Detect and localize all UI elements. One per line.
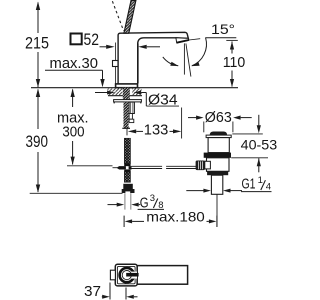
hose nut xyxy=(123,184,133,189)
top view side tab xyxy=(110,270,115,280)
spout aerator xyxy=(176,38,189,43)
tee fitting xyxy=(116,166,131,169)
dimension 110 xyxy=(226,39,238,41)
waste plug dome xyxy=(210,132,228,136)
dimension 390 line xyxy=(37,90,39,193)
emblem inner circle xyxy=(122,271,131,280)
svg-text:G1: G1 xyxy=(242,176,256,193)
countertop hatch right xyxy=(132,88,142,95)
handle lever (hatched) xyxy=(124,1,136,34)
15 degree arc left branch xyxy=(163,57,178,66)
waste washer band xyxy=(204,153,231,158)
angle tilted line xyxy=(186,43,191,76)
svg-text:110: 110 xyxy=(223,54,246,71)
waste upper cylinder xyxy=(208,138,229,153)
15 degree arc right branch xyxy=(192,38,207,66)
rod guide tube xyxy=(129,102,134,113)
left extension line of square52 xyxy=(115,43,117,84)
top view lever arm xyxy=(137,266,187,285)
waste body xyxy=(207,158,230,172)
base plate xyxy=(116,84,138,88)
angle reference vertical line xyxy=(183,43,185,74)
dimension 215 line xyxy=(37,3,39,88)
waste flange plate xyxy=(206,135,231,138)
emblem ring xyxy=(118,267,135,284)
countertop hatch left xyxy=(108,88,123,95)
flexible hose lower part xyxy=(124,170,130,172)
emblem bar gap xyxy=(132,272,138,279)
dimension square52 xyxy=(71,34,82,45)
lift rod xyxy=(131,165,162,167)
countertop top line xyxy=(31,87,238,89)
dimension Ø63 xyxy=(203,122,205,133)
rod knob xyxy=(196,161,205,171)
small tab on body left side xyxy=(113,61,119,67)
svg-text:300: 300 xyxy=(62,124,84,140)
knob stem xyxy=(205,161,211,169)
rod-level extension line xyxy=(67,165,113,167)
svg-text:1: 1 xyxy=(258,175,263,186)
svg-text:40-53: 40-53 xyxy=(241,137,278,152)
dimension 133 xyxy=(126,129,128,136)
max.180 dimension xyxy=(123,216,125,227)
Ø34 callout xyxy=(95,92,108,94)
svg-text:15°: 15° xyxy=(211,21,235,37)
rod guide foot xyxy=(129,119,134,122)
dimension 40-53 xyxy=(232,133,262,135)
dimension max300 line xyxy=(72,90,74,165)
handle travel dashed line xyxy=(112,1,123,31)
svg-text:Ø34: Ø34 xyxy=(148,91,178,108)
svg-text:3: 3 xyxy=(150,193,155,204)
G1 1/4 label xyxy=(186,190,204,192)
svg-text:max.30: max.30 xyxy=(50,55,99,72)
hose tail pipe xyxy=(124,193,126,209)
emblem bar xyxy=(126,273,138,277)
aerator plane extension xyxy=(189,39,200,40)
15 degree baseline xyxy=(205,37,236,39)
svg-text:215: 215 xyxy=(25,34,49,53)
svg-text:max.180: max.180 xyxy=(146,209,205,225)
dimension 37 xyxy=(109,283,111,300)
svg-text:390: 390 xyxy=(26,133,49,151)
flexible hose upper part xyxy=(124,138,130,163)
waste lock nut xyxy=(207,171,228,175)
mounting washer xyxy=(114,100,142,102)
svg-text:37: 37 xyxy=(84,284,101,300)
countertop bottom line xyxy=(108,95,142,97)
hose-end extension line xyxy=(30,192,123,194)
waste tailpipe xyxy=(211,175,222,194)
svg-text:Ø63: Ø63 xyxy=(205,110,232,126)
threaded rod below washer xyxy=(124,102,129,128)
svg-text:52: 52 xyxy=(84,30,100,49)
threaded shank through counter xyxy=(123,88,130,100)
svg-text:4: 4 xyxy=(266,182,271,193)
waste center line xyxy=(216,195,218,227)
rod guide lower step xyxy=(129,114,132,120)
top view handle square xyxy=(115,264,137,286)
right extension line of square52 xyxy=(137,44,139,84)
faucet body and spout outline xyxy=(118,32,188,84)
knob stem overlay xyxy=(205,161,211,169)
G3/8 arrows xyxy=(108,204,118,206)
svg-text:133: 133 xyxy=(144,122,169,138)
